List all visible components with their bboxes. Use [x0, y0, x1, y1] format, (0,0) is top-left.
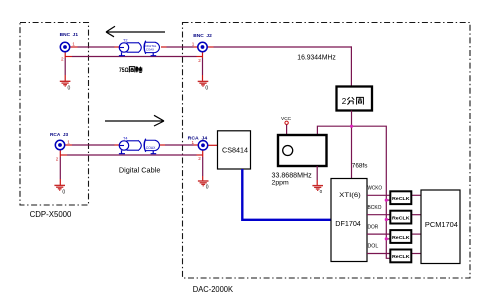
- ReCLK reclocker block 1: [390, 191, 411, 204]
- svg-text:BNC J1: BNC J1: [60, 32, 79, 37]
- wire: J3 pin1 to plug T4 (y=145): [65, 144, 120, 146]
- svg-text:ReCLK: ReCLK: [392, 196, 410, 202]
- RCA J4 reference label: [188, 135, 208, 140]
- svg-text:ReCLK: ReCLK: [392, 215, 410, 221]
- svg-text:75Ω: 75Ω: [119, 67, 129, 74]
- svg-text:0: 0: [62, 190, 65, 196]
- svg-text:DOL: DOL: [368, 244, 379, 250]
- 768fs net label: [352, 162, 368, 169]
- wire: ReCLK1 output to PCM1704: [411, 194, 421, 196]
- svg-text:2: 2: [198, 156, 201, 161]
- wire: oscillator output to clock distribution (y=126): [317, 126, 390, 258]
- ReCLK reclocker block 2: [390, 211, 411, 224]
- coax plug T2 (male, top pair): [119, 38, 141, 55]
- svg-text:CDP-X5000: CDP-X5000: [30, 210, 72, 219]
- wire: RCA J4 to CS8414 input: [208, 144, 218, 146]
- RCA J4 connector: [198, 141, 207, 150]
- svg-text:WCKO: WCKO: [368, 186, 383, 192]
- svg-text:0: 0: [205, 86, 208, 92]
- arrow (signal direction, pointing left, top): [106, 26, 165, 37]
- svg-text:T4: T4: [123, 136, 127, 140]
- wire: BCKO to ReCLK2: [367, 214, 390, 216]
- svg-text:DAC-2000K: DAC-2000K: [193, 285, 234, 294]
- svg-text:1: 1: [67, 140, 70, 145]
- BNC J1 reference label: [60, 32, 79, 37]
- svg-text:COAX: COAX: [146, 146, 156, 150]
- DF1704 pin label WCKO: [368, 186, 383, 192]
- wire: DOL to ReCLK4: [367, 253, 390, 255]
- BNC J2 reference label: [193, 33, 212, 38]
- ground (J3, 0V): [54, 185, 65, 195]
- BNC J1 pin number 1: [72, 42, 75, 47]
- wire: J1 pin1 to plug T2 (net at y=47): [70, 46, 119, 48]
- wire: WCKO to ReCLK1: [367, 194, 390, 196]
- wire: clock stub into ReCLK2: [385, 218, 391, 221]
- crystal oscillator module X1: [278, 135, 327, 166]
- svg-text:0: 0: [206, 185, 209, 191]
- svg-text:ReCLK: ReCLK: [392, 254, 410, 260]
- svg-text:2ppm: 2ppm: [272, 180, 290, 187]
- Digital Cable label: [119, 168, 161, 175]
- oscillator frequency label 33.8688MHz 2ppm: [272, 172, 313, 186]
- wire: clock stub into ReCLK3: [385, 237, 391, 240]
- PCM1704 DAC U3: [421, 190, 460, 264]
- CDP-X5000 label: [30, 210, 72, 219]
- DF1704 pin label BCKO: [368, 205, 382, 211]
- ground (J4, 0V): [198, 181, 209, 191]
- ground (oscillator, 0V): [312, 186, 323, 194]
- svg-text:COAX: COAX: [146, 47, 154, 51]
- RCA J3 connector: [55, 140, 64, 149]
- svg-text:BCKO: BCKO: [368, 205, 382, 211]
- wire: shield return J3 to J4 (y=155): [60, 154, 202, 156]
- BNC J1 connector: [60, 42, 69, 51]
- coax plug T4 (male, bottom pair): [119, 136, 141, 153]
- svg-text:1: 1: [192, 42, 195, 47]
- RCA J3 pin number 1: [67, 140, 70, 145]
- DAC-2000K enclosure box: [183, 23, 471, 279]
- CS8414 digital receiver U1: [218, 131, 251, 169]
- wire: ReCLK3 output to PCM1704: [411, 233, 421, 235]
- wire: clock stub into ReCLK1: [385, 199, 391, 202]
- svg-text:2: 2: [342, 97, 347, 106]
- svg-text:0: 0: [68, 86, 71, 92]
- svg-text:DOR: DOR: [368, 224, 379, 230]
- ReCLK reclocker block 4: [390, 250, 411, 263]
- svg-text:DF1704: DF1704: [335, 221, 361, 228]
- ground (J2, 0V): [198, 81, 209, 91]
- wire: oscillator ground pin: [316, 166, 318, 185]
- ReCLK reclocker block 3: [390, 230, 411, 243]
- svg-text:T2: T2: [123, 38, 127, 42]
- 75-ohm coax cable label: [119, 66, 142, 74]
- wire: coax jack to RCA J4 pin1 (y=145): [160, 144, 199, 146]
- VCC power symbol: [281, 116, 292, 135]
- wire: CS8414 data to DF1704 (blue): [242, 169, 331, 220]
- svg-text:RCA J3: RCA J3: [50, 132, 69, 137]
- svg-text:1: 1: [72, 42, 75, 47]
- coax jack (female, top pair): [144, 41, 160, 56]
- RCA J3 reference label: [50, 132, 69, 137]
- svg-text:ReCLK: ReCLK: [392, 235, 410, 241]
- svg-text:BNC J2: BNC J2: [193, 33, 212, 38]
- BNC J2 pin number 2: [198, 58, 201, 63]
- wire: ReCLK4 output to PCM1704: [411, 253, 421, 255]
- svg-text:XTI(6): XTI(6): [339, 192, 361, 199]
- wire: J2 pin2 drop to ground: [202, 52, 204, 81]
- RCA J4 pin number 1: [192, 140, 195, 145]
- svg-text:Digital Cable: Digital Cable: [119, 168, 161, 175]
- wire: BNC J2 to 16.9344MHz clock feed (y=47 to divider): [207, 46, 352, 86]
- RCA J4 pin number 2: [198, 156, 201, 161]
- BNC J2 connector: [198, 42, 207, 51]
- svg-text:2: 2: [56, 156, 59, 161]
- RCA J3 pin number 2: [56, 156, 59, 161]
- svg-text:2: 2: [198, 58, 201, 63]
- DF1704 pin label DOL: [368, 244, 379, 250]
- wire: coax jack to BNC J2 pin1 (y=47): [161, 46, 198, 48]
- 16.9344MHz net label: [297, 54, 336, 61]
- junction (osc clock joins XTI line): [350, 125, 353, 128]
- wire: J3 pin2 drop to ground: [59, 150, 61, 185]
- svg-text:2: 2: [61, 56, 64, 61]
- svg-text:16.9344MHz: 16.9344MHz: [297, 54, 336, 61]
- svg-text:0: 0: [320, 189, 323, 194]
- svg-text:768fs: 768fs: [352, 162, 368, 169]
- DF1704 digital filter U2: [331, 179, 367, 262]
- svg-text:PCM1704: PCM1704: [425, 222, 458, 229]
- wire: ReCLK2 output to PCM1704: [411, 214, 421, 216]
- svg-text:33.8688MHz: 33.8688MHz: [272, 172, 313, 179]
- wire: divider output down to XTI, with 768fs branch: [351, 111, 353, 179]
- arrow (signal direction, pointing right, bottom): [105, 115, 164, 126]
- svg-text:CS8414: CS8414: [222, 148, 248, 155]
- svg-text:1: 1: [192, 140, 195, 145]
- wire: DOR to ReCLK3: [367, 233, 390, 235]
- coax jack (female, bottom pair): [144, 139, 160, 154]
- wire: shield return J1 to J2 (y=56.5): [65, 56, 202, 58]
- BNC J2 pin number 1: [192, 42, 195, 47]
- ground (J1, 0V): [60, 81, 71, 91]
- DAC-2000K label: [193, 285, 234, 294]
- wire: J1 pin2 drop to ground: [64, 52, 66, 81]
- 2分周 divide-by-2 block: [337, 87, 373, 111]
- CDP-X5000 enclosure box: [20, 23, 89, 206]
- wire: J4 pin2 drop to ground: [202, 150, 204, 181]
- BNC J1 pin number 2: [61, 56, 64, 61]
- DF1704 pin label DOR: [368, 224, 379, 230]
